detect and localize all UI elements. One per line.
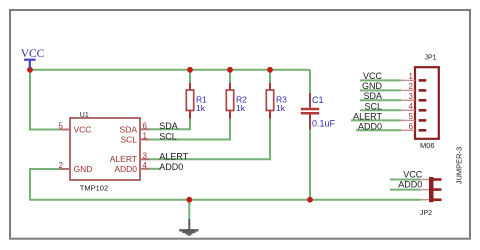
U1 pin 6 stub	[140, 128, 150, 130]
U1 pin 5 stub	[61, 129, 71, 131]
wire R2 top	[229, 70, 231, 83]
wire JP1 pin3 SDA	[360, 99, 401, 101]
U1 pin 2 stub	[61, 168, 71, 170]
op-amp U1 box TMP102	[70, 118, 140, 180]
svg-text:0.1uF: 0.1uF	[312, 119, 336, 129]
svg-text:JP2: JP2	[420, 210, 432, 217]
junction R1	[187, 67, 193, 73]
wire ground stub	[188, 200, 190, 219]
svg-text:1: 1	[143, 132, 148, 141]
wire JP1 pin5 ALERT	[351, 119, 401, 121]
wire JP2 pin1 VCC	[390, 179, 420, 181]
svg-text:1k: 1k	[276, 103, 286, 113]
svg-text:VCC: VCC	[21, 48, 45, 60]
svg-text:3: 3	[143, 151, 148, 160]
wire net ALERT from U1 pin3 to R3	[150, 118, 271, 159]
svg-text:ALERT: ALERT	[159, 151, 188, 161]
wire VCC left vertical to U1 pin5	[30, 70, 62, 130]
wire VCC rail top	[30, 69, 310, 71]
resistor R1	[186, 83, 207, 119]
svg-text:ALERT: ALERT	[353, 111, 382, 121]
svg-text:4: 4	[143, 161, 148, 170]
svg-text:ADD0: ADD0	[358, 121, 382, 131]
ground symbol	[179, 219, 198, 235]
junction C1 bottom	[307, 197, 313, 203]
resistor R2	[226, 83, 247, 119]
svg-text:VCC: VCC	[74, 125, 92, 135]
svg-text:4: 4	[409, 102, 414, 111]
wire JP1 pin6 ADD0	[356, 129, 401, 131]
svg-text:JUMPER-3: JUMPER-3	[454, 147, 463, 185]
wire GND from U1 pin2 to bottom rail	[30, 169, 421, 200]
wire JP1 pin1 VCC	[360, 79, 401, 81]
wire net ADD0 stub at U1 pin4	[150, 168, 161, 170]
wire R3 top	[269, 70, 271, 83]
svg-text:SDA: SDA	[120, 125, 138, 135]
wire net SCL from U1 pin1 to R2	[150, 118, 231, 139]
capacitor C1	[301, 93, 336, 130]
JP2 left pin stubs	[420, 180, 429, 200]
svg-text:6: 6	[143, 121, 148, 130]
connector JP1 box	[415, 67, 439, 139]
svg-text:5: 5	[59, 121, 64, 130]
svg-text:ADD0: ADD0	[398, 179, 422, 189]
svg-text:JP1: JP1	[425, 55, 437, 62]
U1 pin 4 stub	[140, 168, 150, 170]
JP2 right stubs	[434, 180, 442, 200]
svg-text:1k: 1k	[196, 103, 206, 113]
svg-text:2: 2	[59, 161, 64, 170]
wire C1 bottom to rail	[309, 130, 311, 200]
JP1 net labels	[353, 71, 382, 131]
svg-text:ADD0: ADD0	[159, 162, 183, 172]
svg-text:6: 6	[409, 122, 414, 131]
svg-text:C1: C1	[312, 95, 324, 105]
wire C1 top	[309, 70, 311, 93]
svg-text:GND: GND	[74, 164, 93, 174]
svg-text:VCC: VCC	[363, 71, 383, 81]
wire JP1 pin4 SCL	[360, 109, 401, 111]
wire JP2 pin2 ADD0	[390, 189, 420, 191]
svg-text:1k: 1k	[236, 103, 246, 113]
junction R3	[267, 67, 273, 73]
resistor R3	[266, 83, 287, 119]
svg-text:M06: M06	[420, 141, 435, 150]
svg-text:SCL: SCL	[159, 131, 177, 141]
svg-text:SCL: SCL	[364, 101, 382, 111]
wire JP1 pin2 GND	[360, 89, 401, 91]
JP1 pin ticks inside	[419, 80, 427, 130]
junction ground	[186, 197, 192, 203]
svg-text:SDA: SDA	[159, 121, 178, 131]
wire net SDA from U1 pin6 to R1	[150, 118, 191, 129]
svg-text:3: 3	[409, 92, 414, 101]
wire R1 top	[189, 70, 191, 83]
svg-text:U1: U1	[80, 112, 89, 119]
junction R2	[227, 67, 233, 73]
supply symbol VCC	[21, 48, 45, 68]
U1 pin 3 stub	[140, 158, 150, 160]
svg-text:5: 5	[409, 112, 414, 121]
junction VCC top-left	[27, 67, 33, 73]
JP1 pin stubs	[401, 80, 415, 130]
svg-text:SDA: SDA	[363, 91, 382, 101]
JP1 pin numbers	[409, 72, 414, 131]
U1 pin 1 stub	[140, 139, 150, 141]
svg-text:TMP102: TMP102	[80, 183, 108, 192]
svg-text:2: 2	[409, 82, 414, 91]
svg-text:1: 1	[409, 72, 414, 81]
svg-text:SCL: SCL	[120, 134, 137, 144]
svg-text:VCC: VCC	[403, 170, 423, 180]
connector JP2 bar	[429, 177, 434, 202]
svg-text:ALERT: ALERT	[110, 154, 137, 164]
svg-text:GND: GND	[362, 81, 383, 91]
svg-text:ADD0: ADD0	[114, 164, 137, 174]
